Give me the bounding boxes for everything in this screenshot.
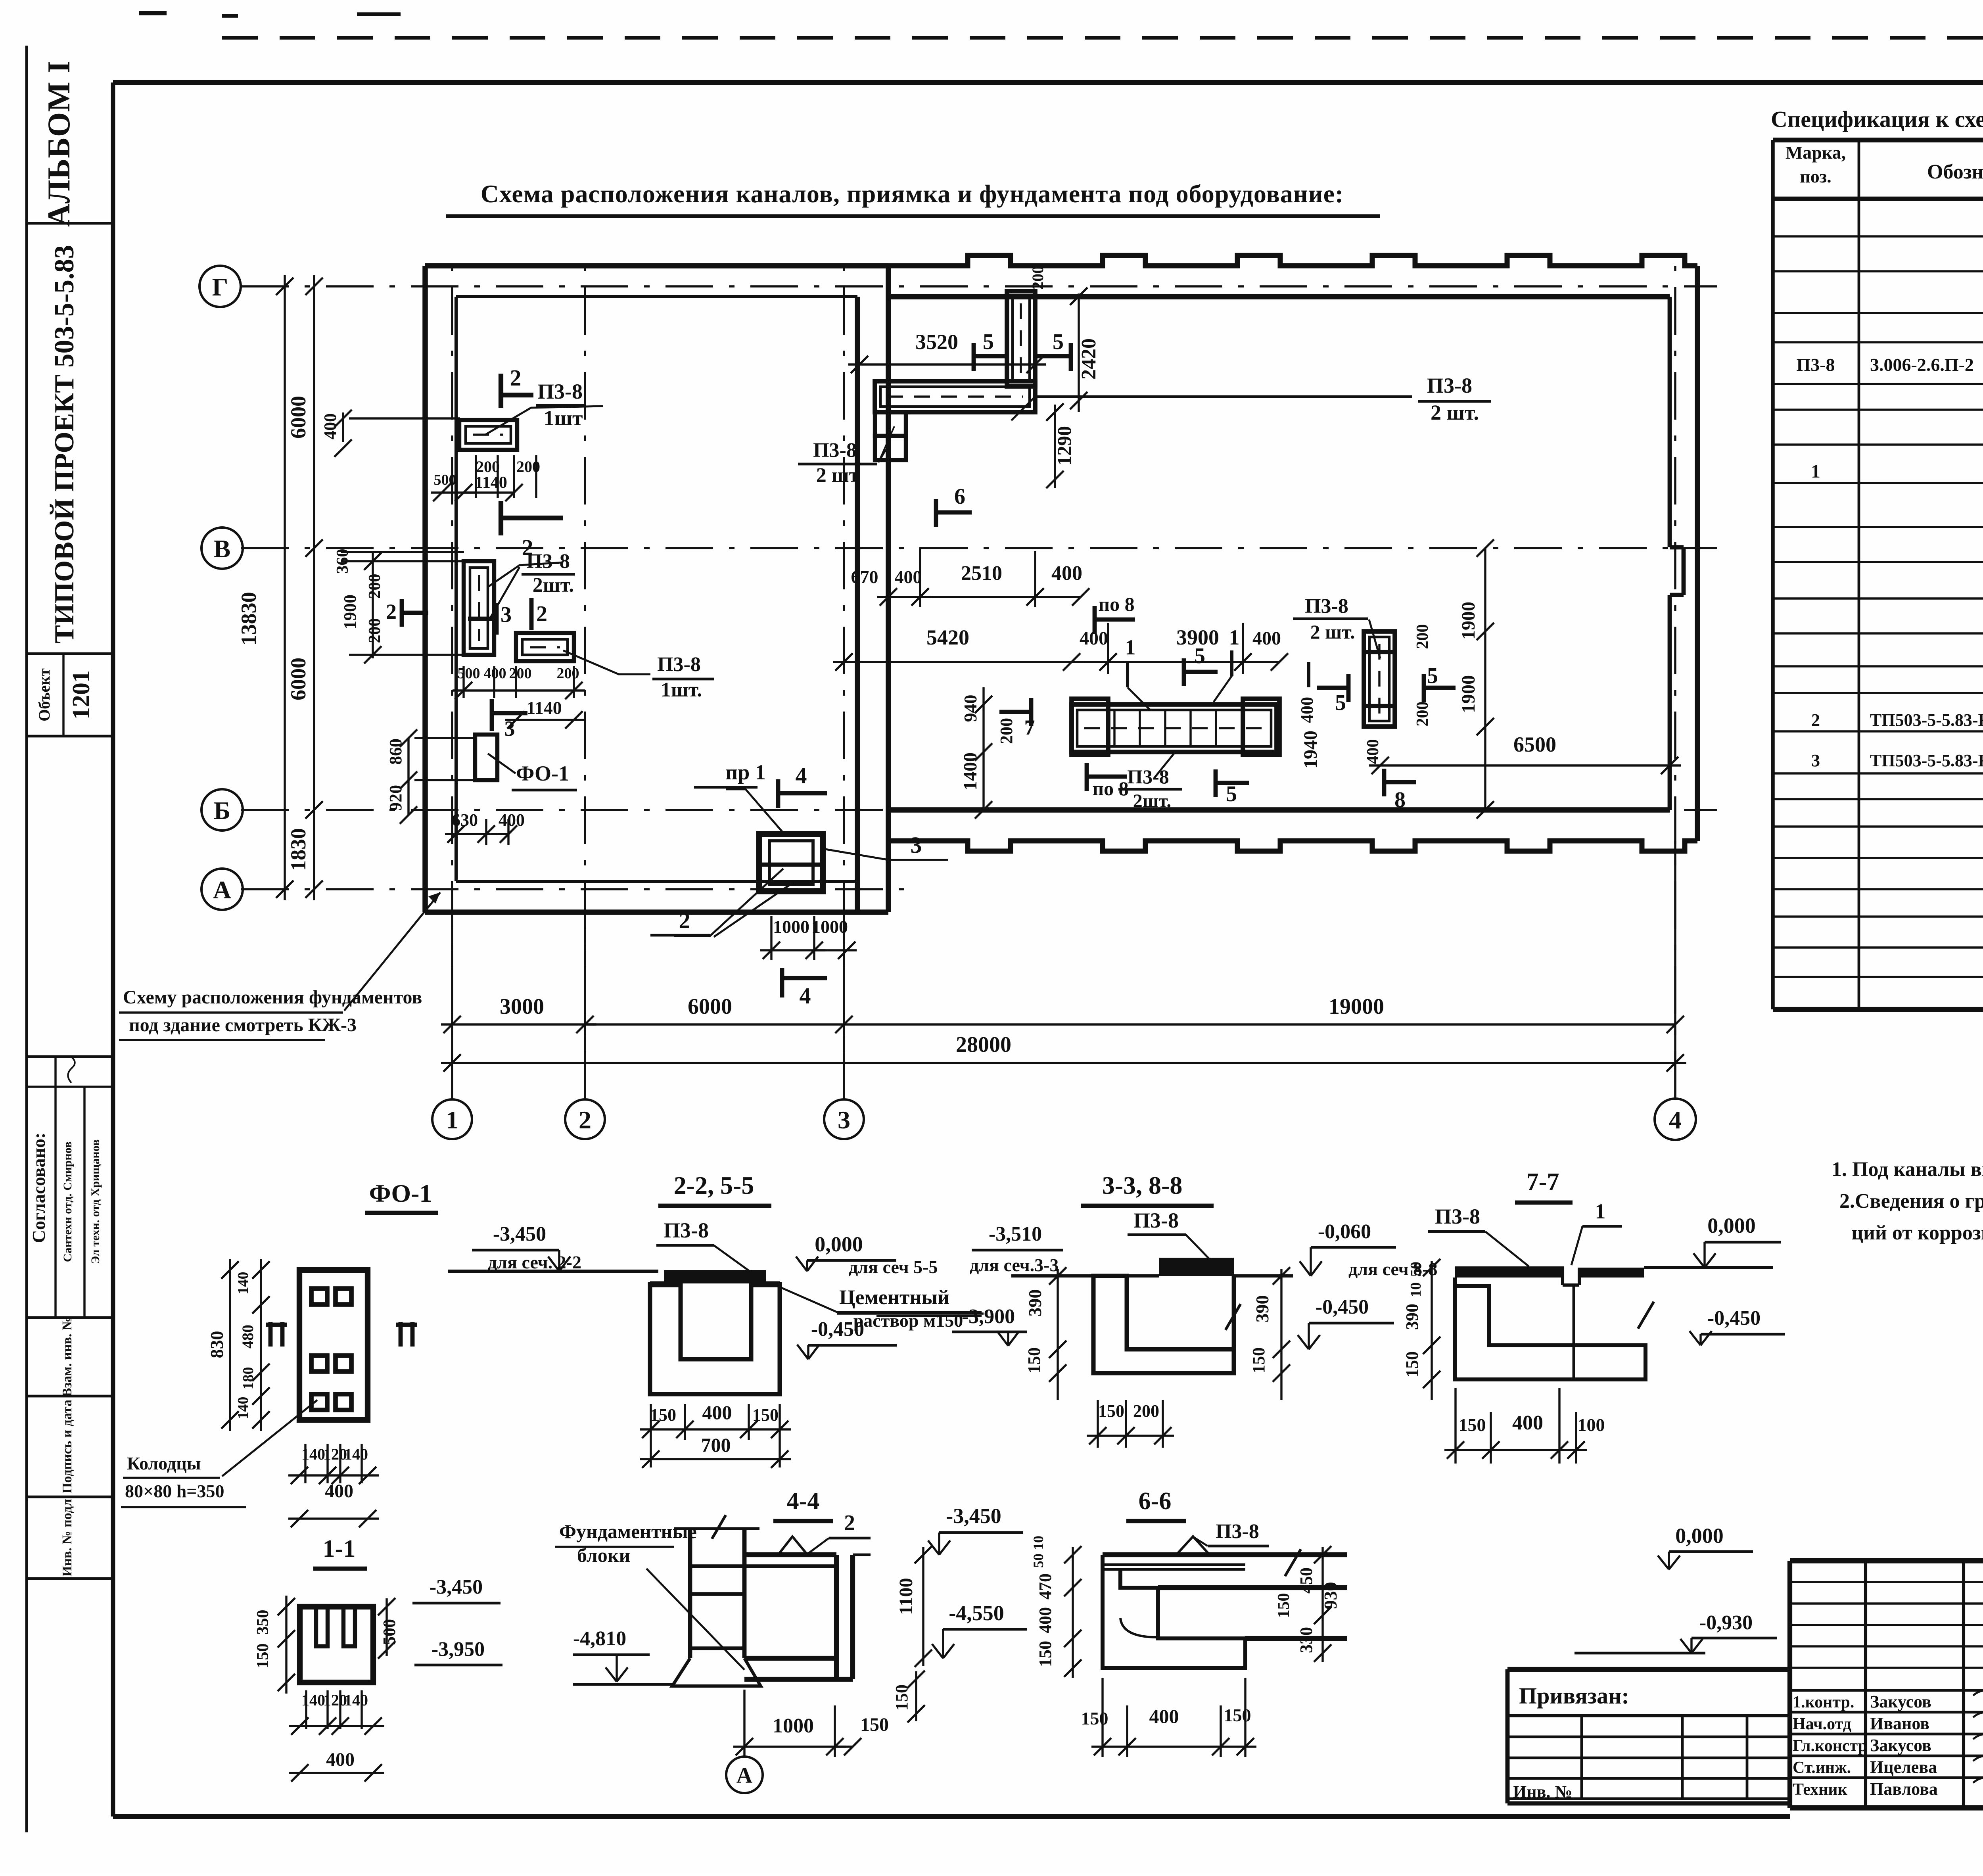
svg-text:Спецификация к схеме распол: Спецификация к схеме расположения канало…	[1771, 106, 1983, 132]
svg-text:400: 400	[702, 1401, 732, 1423]
po 8 marks	[1093, 606, 1097, 634]
svg-text:1-1: 1-1	[323, 1535, 356, 1562]
svg-text:для сеч.3-3: для сеч.3-3	[970, 1255, 1059, 1275]
svg-text:1. Под каналы выполнить подг: 1. Под каналы выполнить подготовку из ще…	[1831, 1158, 1983, 1181]
svg-text:5: 5	[983, 330, 994, 354]
svg-text:ТП503-5-5.83-КЖИ- МН1: ТП503-5-5.83-КЖИ- МН1	[1870, 751, 1983, 770]
svg-text:-3,950: -3,950	[432, 1638, 485, 1661]
svg-text:3520: 3520	[915, 330, 958, 354]
axis circles	[199, 266, 241, 307]
axis lines	[241, 254, 1717, 1099]
svg-text:1: 1	[1229, 625, 1240, 649]
svg-text:1201: 1201	[68, 670, 95, 719]
channel A top-left	[459, 420, 517, 450]
label P3-8 1sht channel A	[485, 406, 603, 435]
svg-text:Инв. № подл: Инв. № подл	[60, 1499, 75, 1577]
svg-text:2: 2	[536, 602, 547, 626]
svg-text:2: 2	[579, 1106, 591, 1134]
svg-text:4-4: 4-4	[787, 1488, 820, 1515]
svg-text:-0,450: -0,450	[811, 1318, 864, 1341]
svg-text:1шт.: 1шт.	[661, 679, 702, 701]
svg-text:А: А	[213, 876, 231, 904]
svg-text:7: 7	[1024, 715, 1035, 739]
building plan	[425, 255, 1697, 912]
section 5 mark middle	[1182, 658, 1186, 686]
svg-text:140: 140	[301, 1691, 325, 1709]
L channel top (axis 3 area)	[875, 291, 1035, 460]
svg-text:П3-8: П3-8	[813, 439, 857, 462]
svg-text:-0,930: -0,930	[1699, 1611, 1753, 1634]
svg-text:830: 830	[207, 1331, 227, 1358]
section 1 marks	[1126, 662, 1129, 687]
svg-text:П3-8: П3-8	[526, 550, 570, 573]
svg-text:1.контр.: 1.контр.	[1793, 1693, 1854, 1711]
svg-text:400: 400	[1364, 739, 1382, 764]
svg-text:Иванов: Иванов	[1870, 1714, 1929, 1733]
svg-text:1: 1	[1595, 1199, 1606, 1223]
svg-text:-4,810: -4,810	[573, 1627, 626, 1650]
svg-text:1900: 1900	[1458, 602, 1479, 640]
section mark 2 below channel A	[499, 501, 503, 535]
svg-text:8: 8	[1394, 788, 1406, 812]
svg-text:ТИПОВОЙ ПРОЕКТ 503-5-5.83: ТИПОВОЙ ПРОЕКТ 503-5-5.83	[49, 245, 80, 643]
svg-text:400: 400	[325, 1481, 353, 1502]
svg-text:-0,450: -0,450	[1316, 1296, 1369, 1318]
svg-text:6000: 6000	[688, 994, 732, 1019]
svg-text:670: 670	[851, 567, 878, 587]
svg-text:4: 4	[1669, 1106, 1682, 1134]
channel G vertical	[1364, 631, 1395, 727]
bottom dims	[441, 1023, 596, 1025]
svg-text:Гл.констр: Гл.констр	[1793, 1737, 1867, 1755]
svg-text:50: 50	[1408, 1262, 1424, 1277]
foundation column	[672, 1515, 761, 1686]
svg-text:0,000: 0,000	[815, 1232, 863, 1256]
svg-text:400: 400	[1051, 562, 1082, 585]
svg-text:-0,060: -0,060	[1318, 1220, 1371, 1243]
svg-text:400: 400	[499, 810, 525, 830]
svg-text:Цементный: Цементный	[839, 1286, 949, 1309]
section 5 marks for G	[1346, 674, 1351, 702]
svg-text:Ицелева: Ицелева	[1870, 1757, 1937, 1777]
svg-text:390: 390	[1402, 1304, 1422, 1330]
section shape	[1103, 1549, 1347, 1668]
svg-text:100: 100	[1578, 1415, 1605, 1435]
svg-text:150: 150	[1275, 1593, 1293, 1618]
svg-text:10: 10	[1408, 1282, 1424, 1297]
svg-text:400: 400	[895, 567, 922, 587]
svg-text:Павлова: Павлова	[1870, 1779, 1938, 1799]
svg-text:150: 150	[1459, 1415, 1486, 1435]
svg-text:470: 470	[1036, 1573, 1055, 1600]
triangle mark	[778, 1536, 807, 1555]
svg-text:140: 140	[235, 1397, 251, 1419]
svg-text:для сеч 5-5: для сеч 5-5	[849, 1257, 938, 1277]
svg-text:П3-8: П3-8	[537, 380, 583, 403]
svg-text:П3-8: П3-8	[657, 653, 701, 676]
section mark 2	[529, 598, 534, 630]
svg-text:ций от коррозии приведены: ций от коррозии приведены на листах КЖ-2…	[1851, 1222, 1983, 1244]
privyazan box	[1507, 1669, 1790, 1803]
svg-text:860: 860	[386, 739, 405, 765]
svg-text:1940: 1940	[1300, 731, 1321, 769]
middle channel F	[1072, 699, 1279, 755]
svg-text:1шт: 1шт	[543, 406, 583, 430]
svg-text:150: 150	[1098, 1401, 1124, 1421]
svg-text:Схема расположения каналов,: Схема расположения каналов, приямка и фу…	[481, 180, 1344, 208]
svg-text:400: 400	[326, 1749, 355, 1770]
svg-text:поз.: поз.	[1800, 166, 1831, 186]
svg-text:1000: 1000	[811, 917, 848, 937]
title block	[1790, 1561, 1983, 1808]
svg-text:150: 150	[254, 1644, 272, 1669]
svg-text:1000: 1000	[773, 1715, 814, 1737]
svg-text:4: 4	[800, 983, 811, 1009]
svg-text:П3-8: П3-8	[1796, 355, 1835, 375]
svg-text:1140: 1140	[475, 474, 507, 492]
FO-1 dims left	[260, 1259, 262, 1431]
section 7 mark	[1029, 698, 1034, 726]
svg-text:150: 150	[1081, 1708, 1108, 1728]
svg-text:Ст.инж.: Ст.инж.	[1793, 1759, 1851, 1777]
section mark 2 above channel A	[499, 374, 503, 408]
svg-text:Взам. инв. №: Взам. инв. №	[60, 1317, 75, 1397]
section mark 2 near V	[400, 599, 404, 627]
section 5 marks	[972, 343, 976, 371]
svg-text:2-2, 5-5: 2-2, 5-5	[674, 1171, 754, 1199]
svg-text:Объект: Объект	[35, 668, 53, 721]
svg-text:А: А	[736, 1763, 753, 1788]
svg-text:2420: 2420	[1078, 338, 1100, 380]
svg-text:390: 390	[1252, 1295, 1272, 1323]
ground line + plate	[448, 1270, 658, 1273]
svg-text:28000: 28000	[956, 1032, 1011, 1057]
svg-text:-3,450: -3,450	[493, 1223, 546, 1245]
svg-text:200: 200	[1413, 702, 1432, 727]
svg-text:1830: 1830	[286, 828, 310, 871]
svg-text:5: 5	[1226, 782, 1237, 806]
svg-text:80×80 h=350: 80×80 h=350	[125, 1481, 224, 1501]
svg-text:1: 1	[1811, 461, 1820, 482]
svg-text:400: 400	[1149, 1705, 1179, 1727]
label P3-8 1sht channel C	[563, 650, 650, 674]
svg-text:400: 400	[1512, 1412, 1543, 1434]
channel B vertical near axis V	[464, 561, 494, 655]
svg-text:-3,450: -3,450	[430, 1576, 483, 1598]
svg-text:150: 150	[1036, 1641, 1055, 1667]
left dim chains	[284, 275, 286, 900]
svg-text:П3-8: П3-8	[664, 1218, 709, 1242]
svg-text:пр 1: пр 1	[725, 760, 766, 784]
plates and ground	[1455, 1266, 1563, 1278]
svg-text:200: 200	[1413, 624, 1432, 649]
svg-text:3: 3	[1811, 751, 1820, 770]
svg-text:140: 140	[235, 1272, 251, 1295]
svg-text:Закусов: Закусов	[1870, 1692, 1931, 1711]
section mark 3	[495, 603, 499, 635]
svg-text:2 шт.: 2 шт.	[1310, 621, 1355, 643]
svg-text:2510: 2510	[961, 562, 1002, 585]
svg-text:Марка,: Марка,	[1785, 142, 1846, 163]
svg-text:Инв. №: Инв. №	[1513, 1782, 1573, 1801]
svg-text:Б: Б	[214, 796, 230, 825]
svg-text:4: 4	[796, 763, 807, 788]
svg-text:АЛЬБОМ I: АЛЬБОМ I	[42, 60, 77, 226]
pit right wall	[744, 1555, 871, 1679]
svg-text:2шт.: 2шт.	[1133, 790, 1172, 811]
svg-text:по 8: по 8	[1098, 593, 1134, 615]
svg-text:ТП503-5-5.83-КЖИ- Щ1: ТП503-5-5.83-КЖИ- Щ1	[1870, 710, 1983, 730]
svg-text:6-6: 6-6	[1139, 1488, 1172, 1515]
pit PR-1	[759, 834, 823, 891]
svg-text:500: 500	[458, 665, 480, 682]
svg-text:700: 700	[701, 1434, 731, 1456]
svg-text:-3,510: -3,510	[989, 1223, 1042, 1245]
svg-text:П3-8: П3-8	[1427, 374, 1472, 397]
svg-text:-0,450: -0,450	[1707, 1307, 1761, 1329]
svg-text:-4,550: -4,550	[949, 1601, 1004, 1625]
svg-text:0,000: 0,000	[1707, 1214, 1756, 1237]
section mark 4 below	[780, 968, 784, 997]
svg-text:150: 150	[860, 1714, 889, 1735]
svg-text:10: 10	[1030, 1536, 1046, 1550]
svg-text:Колодцы: Колодцы	[127, 1453, 201, 1473]
section 6 mark	[934, 499, 938, 527]
svg-text:400: 400	[1036, 1607, 1055, 1633]
svg-text:2 шт.: 2 шт.	[1431, 401, 1479, 424]
svg-text:1: 1	[446, 1106, 458, 1134]
svg-text:П3-8: П3-8	[1435, 1205, 1480, 1228]
svg-text:5: 5	[1335, 691, 1346, 715]
svg-text:2: 2	[386, 600, 397, 623]
svg-text:200: 200	[509, 665, 532, 682]
svg-text:140: 140	[344, 1691, 368, 1709]
svg-text:200: 200	[557, 665, 579, 682]
svg-text:2: 2	[1811, 710, 1820, 730]
svg-text:Сантехн отд. Смирнов: Сантехн отд. Смирнов	[61, 1141, 74, 1262]
svg-text:5: 5	[1194, 644, 1205, 668]
svg-text:0,000: 0,000	[1675, 1524, 1724, 1548]
svg-text:150: 150	[1224, 1705, 1251, 1725]
P section marks	[268, 1322, 273, 1347]
svg-text:Техник: Техник	[1793, 1780, 1848, 1799]
svg-text:3000: 3000	[500, 994, 544, 1019]
label pr1	[726, 789, 783, 833]
svg-text:Закусов: Закусов	[1870, 1736, 1931, 1755]
svg-text:Привязан:: Привязан:	[1519, 1683, 1629, 1709]
svg-text:1900: 1900	[1458, 675, 1479, 713]
svg-text:2: 2	[510, 365, 522, 391]
svg-text:6: 6	[954, 484, 965, 509]
svg-text:150: 150	[1402, 1351, 1422, 1377]
svg-text:под здание смотреть КЖ-3: под здание смотреть КЖ-3	[129, 1015, 357, 1036]
label P3-8 2sht	[488, 562, 563, 587]
svg-text:Эл техн. отд Хрищанов: Эл техн. отд Хрищанов	[89, 1139, 102, 1264]
svg-text:500: 500	[380, 1619, 399, 1645]
svg-text:2шт.: 2шт.	[533, 574, 574, 597]
svg-text:П3-8: П3-8	[1133, 1208, 1179, 1232]
svg-text:1290: 1290	[1053, 426, 1075, 466]
svg-text:6000: 6000	[286, 396, 310, 439]
svg-text:Схему расположения фундаментов: Схему расположения фундаментов	[123, 987, 422, 1008]
svg-text:180: 180	[240, 1367, 257, 1390]
svg-text:Согласовано:: Согласовано:	[29, 1133, 49, 1243]
svg-text:2.Сведения о грунтах и защ: 2.Сведения о грунтах и защите строительн…	[1839, 1190, 1983, 1212]
svg-text:Обозначение: Обозначение	[1927, 161, 1983, 183]
svg-text:50: 50	[1030, 1554, 1046, 1568]
svg-text:5420: 5420	[926, 625, 969, 649]
U channel	[650, 1284, 780, 1394]
section 5 below	[1214, 769, 1218, 797]
svg-text:3.006-2.6.П-2: 3.006-2.6.П-2	[1870, 355, 1974, 375]
svg-text:390: 390	[1025, 1289, 1045, 1317]
svg-text:Нач.отд: Нач.отд	[1793, 1715, 1851, 1733]
svg-text:П3-8: П3-8	[1305, 595, 1348, 618]
svg-text:6500: 6500	[1513, 733, 1556, 756]
svg-text:19000: 19000	[1329, 994, 1384, 1019]
svg-text:6000: 6000	[286, 658, 310, 700]
svg-text:330: 330	[1296, 1627, 1316, 1653]
svg-text:150: 150	[1249, 1347, 1268, 1373]
svg-text:Г: Г	[212, 273, 228, 301]
svg-text:П3-8: П3-8	[1216, 1520, 1259, 1543]
svg-text:5: 5	[1053, 330, 1064, 354]
svg-text:для сеч. 2-2: для сеч. 2-2	[488, 1252, 581, 1272]
channel C horizontal	[516, 633, 574, 661]
svg-text:200: 200	[366, 618, 384, 643]
section mark 4 above pit	[776, 779, 781, 808]
svg-text:200: 200	[366, 574, 384, 599]
svg-text:920: 920	[386, 785, 405, 811]
svg-text:940: 940	[960, 695, 980, 722]
svg-text:ФО-1: ФО-1	[516, 762, 569, 785]
svg-text:1900: 1900	[340, 595, 360, 629]
svg-text:1: 1	[1125, 635, 1136, 659]
svg-text:ФО-1: ФО-1	[369, 1179, 432, 1207]
svg-text:3: 3	[911, 832, 922, 858]
svg-text:2: 2	[679, 907, 690, 933]
svg-text:150: 150	[650, 1405, 676, 1425]
svg-text:400: 400	[1297, 697, 1317, 723]
svg-text:150: 150	[1024, 1347, 1044, 1373]
svg-text:3: 3	[504, 717, 515, 740]
circle A	[726, 1757, 763, 1793]
svg-text:Подпись и дата: Подпись и дата	[60, 1400, 75, 1493]
svg-text:-3,900: -3,900	[962, 1305, 1015, 1328]
svg-text:140: 140	[344, 1445, 368, 1463]
svg-text:1100: 1100	[896, 1578, 917, 1615]
svg-text:200: 200	[1133, 1401, 1159, 1421]
left stamp column	[27, 60, 113, 1579]
svg-text:500: 500	[434, 472, 456, 488]
svg-text:3: 3	[838, 1106, 850, 1134]
svg-text:3: 3	[501, 602, 512, 627]
section mark 3 below	[490, 699, 494, 731]
svg-text:450: 450	[1296, 1567, 1316, 1594]
svg-text:В: В	[214, 535, 231, 563]
label 3 with leader	[823, 849, 948, 860]
label P3-8 2sht right leader	[1037, 395, 1412, 398]
svg-text:Фундаментные: Фундаментные	[559, 1520, 697, 1542]
svg-text:3-3, 8-8: 3-3, 8-8	[1102, 1171, 1183, 1199]
svg-text:1140: 1140	[526, 698, 562, 718]
svg-text:5: 5	[1427, 664, 1438, 688]
svg-text:400: 400	[1252, 628, 1281, 649]
svg-text:350: 350	[254, 1610, 272, 1635]
svg-text:480: 480	[239, 1325, 257, 1348]
svg-text:-3,450: -3,450	[946, 1504, 1001, 1528]
svg-text:200: 200	[1029, 266, 1047, 290]
svg-text:1000: 1000	[773, 917, 809, 937]
svg-text:2 шт: 2 шт	[816, 464, 859, 487]
label 2 with leader	[674, 869, 783, 936]
svg-text:2: 2	[844, 1511, 855, 1535]
section 8 marks	[1382, 769, 1387, 796]
svg-text:7-7: 7-7	[1527, 1168, 1559, 1195]
foundation FO-1 in plan	[475, 735, 497, 780]
svg-text:200: 200	[476, 458, 500, 476]
svg-text:13830: 13830	[237, 592, 261, 646]
svg-text:200: 200	[997, 718, 1016, 744]
svg-text:400: 400	[320, 413, 340, 439]
